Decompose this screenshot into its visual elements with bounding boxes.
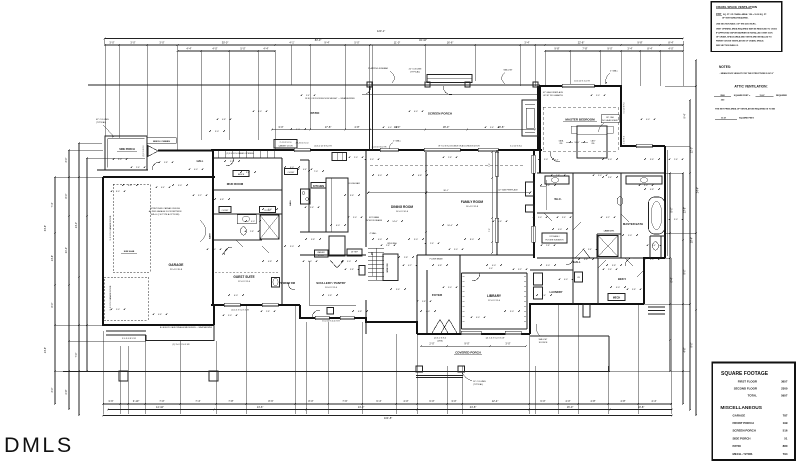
svg-text:6'-0": 6'-0" xyxy=(212,249,216,251)
svg-text:INT. CAB: INT. CAB xyxy=(606,116,614,119)
svg-text:6'-8": 6'-8" xyxy=(438,265,442,267)
svg-text:3'-0": 3'-0" xyxy=(505,341,510,345)
wet shower box xyxy=(260,215,279,239)
svg-text:15'-0 1/2 X 4'-0 X 1R: 15'-0 1/2 X 4'-0 X 1R xyxy=(322,321,340,323)
svg-text:3'-0": 3'-0" xyxy=(448,287,452,289)
svg-text:3'-0 X 8'-0: 3'-0 X 8'-0 xyxy=(624,136,626,144)
patio column c xyxy=(465,82,470,87)
svg-text:MUD ROOM: MUD ROOM xyxy=(227,182,244,186)
dimension rail bottom second xyxy=(108,409,672,411)
svg-text:4'-0": 4'-0" xyxy=(489,268,493,270)
svg-text:4'-4": 4'-4" xyxy=(186,46,191,50)
svg-text:VENT OPENING AREA REQUIRED MAY: VENT OPENING AREA REQUIRED MAY BE REDUCE… xyxy=(716,28,778,31)
svg-text:DMLS: DMLS xyxy=(4,433,74,457)
svg-text:10'-0 X 13'-4: 10'-0 X 13'-4 xyxy=(325,287,338,289)
svg-text:4'-8": 4'-8" xyxy=(650,189,654,191)
library walls xyxy=(461,273,463,329)
svg-text:2'-8": 2'-8" xyxy=(448,157,452,159)
svg-text:2'-2 1/2 X 2'-0: 2'-2 1/2 X 2'-0 xyxy=(280,142,292,144)
wing door diagonals xyxy=(575,250,583,258)
svg-text:4'-8": 4'-8" xyxy=(222,119,226,121)
svg-text:5'-0": 5'-0" xyxy=(628,235,632,237)
wall foyer bottom xyxy=(417,333,530,335)
svg-text:3'-8": 3'-8" xyxy=(350,269,354,271)
dimension rail top overall xyxy=(105,38,684,40)
svg-text:W/A LL Q.W TYPE A OPTIONS): W/A LL Q.W TYPE A OPTIONS) xyxy=(151,213,180,216)
svg-text:7'-6": 7'-6" xyxy=(342,399,347,403)
svg-text:48" REF: 48" REF xyxy=(351,252,359,254)
svg-text:8'-0": 8'-0" xyxy=(378,175,382,177)
family room east wall xyxy=(496,150,498,255)
svg-text:2'-6": 2'-6" xyxy=(674,159,678,161)
svg-text:SIDE PORCH: SIDE PORCH xyxy=(119,148,135,151)
garage stoop steps xyxy=(106,330,146,332)
svg-text:7'-0": 7'-0" xyxy=(314,171,318,173)
svg-text:3'-2": 3'-2" xyxy=(518,269,522,271)
accordion door family top xyxy=(424,148,460,151)
svg-text:HALL: HALL xyxy=(289,199,292,205)
svg-text:4'-0": 4'-0" xyxy=(308,261,312,263)
left rail stub ticks xyxy=(55,176,103,178)
svg-text:11'-0": 11'-0" xyxy=(394,40,400,44)
wic shelves xyxy=(545,180,547,210)
svg-text:W/O HEAD BOARD: W/O HEAD BOARD xyxy=(602,119,619,122)
mech boxed label xyxy=(608,294,625,301)
svg-text:2'-8": 2'-8" xyxy=(546,245,550,247)
window foyer b xyxy=(505,331,521,334)
svg-text:9'-0": 9'-0" xyxy=(607,46,612,50)
svg-text:SCULLERY / PANTRY: SCULLERY / PANTRY xyxy=(316,281,345,285)
svg-text:5'-0": 5'-0" xyxy=(240,46,245,50)
patio door arc a xyxy=(362,86,371,95)
svg-text:12'-0 X 13'-4: 12'-0 X 13'-4 xyxy=(238,281,251,283)
square footage box xyxy=(712,363,795,460)
svg-text:3'-0": 3'-0" xyxy=(674,219,678,221)
wall garage outline xyxy=(103,177,215,325)
svg-text:3'-0": 3'-0" xyxy=(644,185,648,187)
wall right block bottom xyxy=(530,304,644,334)
svg-text:CBL: CBL xyxy=(559,143,563,145)
svg-text:4'-0": 4'-0" xyxy=(403,399,408,403)
window bump b xyxy=(532,226,535,242)
svg-text:CBL: CBL xyxy=(591,143,595,145)
window sitting right xyxy=(636,144,652,147)
broom boxed label xyxy=(359,266,365,276)
stair arrow xyxy=(371,252,373,276)
svg-text:123'-1": 123'-1" xyxy=(377,29,385,33)
svg-text:3'-6": 3'-6" xyxy=(396,289,400,291)
svg-text:DINING ROOM: DINING ROOM xyxy=(391,205,413,209)
master water closet xyxy=(617,197,623,205)
svg-text:3'-0": 3'-0" xyxy=(510,311,514,313)
svg-text:STORAGE /: STORAGE / xyxy=(549,235,560,238)
master vanities xyxy=(545,176,569,184)
door arc guest suite xyxy=(224,247,232,255)
svg-text:4'-0": 4'-0" xyxy=(194,169,198,171)
svg-text:14'-0": 14'-0" xyxy=(358,405,365,409)
svg-text:42" COLUMN: 42" COLUMN xyxy=(96,119,109,121)
svg-text:LINEN CTR.: LINEN CTR. xyxy=(604,231,615,233)
svg-text:OF CRAWL SPACE AREA AND VENTS: OF CRAWL SPACE AREA AND VENTS ARE INSTAL… xyxy=(716,35,772,38)
patio roof line xyxy=(88,84,540,86)
door arc scullery xyxy=(312,310,320,318)
svg-text:4'-0": 4'-0" xyxy=(378,239,382,241)
door arc master xyxy=(550,152,560,162)
svg-text:IF APPROVED VAPOR BARRIER IS I: IF APPROVED VAPOR BARRIER IS INSTALLED O… xyxy=(716,32,773,35)
svg-text:4'-0": 4'-0" xyxy=(558,229,562,231)
svg-text:7'-8": 7'-8" xyxy=(228,399,233,403)
svg-text:10'-0": 10'-0" xyxy=(574,142,580,144)
scullery island xyxy=(327,308,334,315)
svg-text:8'-0": 8'-0" xyxy=(308,399,313,403)
svg-text:4'-0": 4'-0" xyxy=(608,159,612,161)
svg-text:HALL: HALL xyxy=(573,260,581,264)
svg-text:4'-8": 4'-8" xyxy=(268,261,272,263)
svg-text:SQUARE FOOTAGE: SQUARE FOOTAGE xyxy=(721,371,769,377)
svg-text:18'-4": 18'-4" xyxy=(691,237,694,243)
door arc bed5 xyxy=(625,258,633,266)
svg-text:5'-0": 5'-0" xyxy=(268,209,272,211)
svg-text:3'-6": 3'-6" xyxy=(546,185,550,187)
svg-text:6'-0": 6'-0" xyxy=(234,295,238,297)
svg-text:MASTER BATH: MASTER BATH xyxy=(623,222,643,226)
svg-text:4'-0": 4'-0" xyxy=(128,185,132,187)
wall master bedroom xyxy=(540,86,665,173)
svg-text:6'-8": 6'-8" xyxy=(418,175,422,177)
dimension rail right a xyxy=(669,173,671,371)
svg-text:4'-0": 4'-0" xyxy=(564,279,568,281)
svg-text:6'-4": 6'-4" xyxy=(161,187,165,189)
fireplace cabinet xyxy=(526,205,535,212)
svg-text:4'-0": 4'-0" xyxy=(426,311,430,313)
svg-text:7'-0": 7'-0" xyxy=(489,228,491,232)
svg-text:SQ. FT. OF CRAWL AREA / 150 =: SQ. FT. OF CRAWL AREA / 150 = 10.38 SQ. … xyxy=(723,13,767,16)
svg-text:5'-4": 5'-4" xyxy=(306,95,310,97)
svg-text:14'-10": 14'-10" xyxy=(156,405,164,409)
svg-text:2'-8": 2'-8" xyxy=(556,175,560,177)
svg-text:5957: 5957 xyxy=(781,394,788,398)
svg-text:WASHER: WASHER xyxy=(317,251,325,254)
svg-text:5'-0": 5'-0" xyxy=(354,40,359,44)
window dining top xyxy=(380,148,398,151)
svg-text:4'-1": 4'-1" xyxy=(289,40,294,44)
family east interior dim xyxy=(491,152,493,253)
corner pantry diagonal xyxy=(330,260,344,268)
svg-text:4'-0": 4'-0" xyxy=(668,46,673,50)
svg-text:8'-6": 8'-6" xyxy=(268,399,273,403)
svg-text:3'-0": 3'-0" xyxy=(130,40,135,44)
bed master xyxy=(577,126,607,158)
svg-text:4" WALL: 4" WALL xyxy=(369,232,376,235)
wine room box xyxy=(383,254,398,281)
door arc powder xyxy=(288,283,295,290)
svg-text:3'-0": 3'-0" xyxy=(278,125,283,129)
svg-text:10'-8": 10'-8" xyxy=(638,405,645,409)
svg-text:4'-8": 4'-8" xyxy=(590,399,595,403)
svg-text:5'-0": 5'-0" xyxy=(538,217,542,219)
door arc mud xyxy=(226,158,234,166)
partition boxed label xyxy=(274,140,297,149)
svg-text:5'-6": 5'-6" xyxy=(310,207,314,209)
svg-text:4'-2": 4'-2" xyxy=(606,217,610,219)
window scullery a xyxy=(315,316,329,319)
svg-text:7'-4": 7'-4" xyxy=(51,202,54,207)
dimension rail right d xyxy=(695,60,697,416)
porch dim line xyxy=(421,345,526,347)
window bump a xyxy=(532,155,535,173)
svg-text:(2) 3'-0 X 3'-0 X 4R: (2) 3'-0 X 3'-0 X 4R xyxy=(173,344,191,346)
svg-text:3'-0": 3'-0" xyxy=(290,246,294,248)
svg-text:16'-0": 16'-0" xyxy=(567,405,574,409)
svg-text:4'-6": 4'-6" xyxy=(684,347,687,352)
scullery counters xyxy=(308,261,310,305)
wall house left xyxy=(212,150,214,305)
svg-text:3'-0 X 6'-8 X 1R: 3'-0 X 6'-8 X 1R xyxy=(122,338,137,340)
svg-text:6'-0": 6'-0" xyxy=(336,225,340,227)
chimney stub bottom xyxy=(583,304,590,317)
svg-text:5'-0 1/2 X 8'-0: 5'-0 1/2 X 8'-0 xyxy=(624,102,626,113)
svg-text:9'-4": 9'-4" xyxy=(684,113,687,118)
svg-text:TOTAL: TOTAL xyxy=(748,394,758,398)
powder fixtures xyxy=(272,278,280,288)
window foyer a xyxy=(461,331,481,334)
vanity sinks master xyxy=(551,178,559,183)
svg-text:LIBRARY: LIBRARY xyxy=(487,294,502,298)
svg-text:3'-10": 3'-10" xyxy=(133,399,140,403)
dimension rail right c xyxy=(689,100,691,410)
svg-text:FLUSH BAR: FLUSH BAR xyxy=(348,182,360,185)
svg-text:3'-0": 3'-0" xyxy=(118,159,122,161)
svg-text:PATIO: PATIO xyxy=(311,111,320,115)
svg-text:4'-0": 4'-0" xyxy=(251,221,255,223)
wall right wing east xyxy=(664,146,666,258)
svg-text:3'-0": 3'-0" xyxy=(109,40,114,44)
svg-text:5'-4": 5'-4" xyxy=(608,177,612,179)
family interior dim line xyxy=(368,192,530,194)
extension lines to bottom rails xyxy=(102,331,104,414)
svg-text:42" GAS FIREPLACE: 42" GAS FIREPLACE xyxy=(543,91,564,94)
svg-text:MASTER BEDROOM: MASTER BEDROOM xyxy=(565,118,595,122)
svg-text:MECH. / STOR.: MECH. / STOR. xyxy=(733,452,754,456)
svg-text:11.67: 11.67 xyxy=(759,95,765,97)
svg-text:8'-0": 8'-0" xyxy=(470,239,474,241)
screen porch east wall xyxy=(537,86,539,150)
svg-text:4'-0": 4'-0" xyxy=(290,167,294,169)
svg-text:FRONT PORCH: FRONT PORCH xyxy=(733,421,754,425)
dimension rail top sub right xyxy=(545,50,683,52)
window kitchen top xyxy=(294,148,310,151)
garage stoop column a xyxy=(119,371,128,381)
svg-text:(2) 2'-6 X 5'-0 X 3'-W: (2) 2'-6 X 5'-0 X 3'-W xyxy=(486,338,505,340)
svg-text:SUN SLAB: SUN SLAB xyxy=(124,250,135,253)
svg-text:W.I.C.: W.I.C. xyxy=(554,197,562,201)
ref boxed label xyxy=(347,249,362,256)
bed5 walls xyxy=(597,258,599,304)
svg-text:BENCH / CUBBIES: BENCH / CUBBIES xyxy=(153,141,171,143)
svg-text:18 SQ OF ROOFING NOW HEIGHT —: 18 SQ OF ROOFING NOW HEIGHT — WEATHERIZE… xyxy=(305,97,355,100)
ceiling dash dining xyxy=(370,164,525,166)
wc closet walls xyxy=(649,236,651,258)
svg-text:12'-4": 12'-4" xyxy=(492,399,499,403)
svg-text:5'-0": 5'-0" xyxy=(544,159,548,161)
dimension rail right b xyxy=(682,173,684,404)
steps right wing corner xyxy=(648,306,665,308)
bath cluster walls xyxy=(281,158,283,305)
svg-text:36'-1": 36'-1" xyxy=(443,190,449,192)
svg-text:3'-0": 3'-0" xyxy=(454,249,458,251)
svg-text:5'-0": 5'-0" xyxy=(347,261,351,263)
kitchen stove xyxy=(301,189,311,204)
svg-text:WALL MT: WALL MT xyxy=(539,338,549,341)
svg-text:14'-8": 14'-8" xyxy=(44,347,47,353)
svg-text:6'-0": 6'-0" xyxy=(540,399,545,403)
svg-text:FLUSH BEAM: FLUSH BEAM xyxy=(430,258,443,261)
svg-text:16'-4": 16'-4" xyxy=(447,225,453,227)
svg-text:FAMILY ROOM: FAMILY ROOM xyxy=(461,200,483,204)
svg-text:CABINET DOOR: CABINET DOOR xyxy=(278,145,293,148)
svg-text:18'-0": 18'-0" xyxy=(443,125,450,129)
svg-text:GARAGE: GARAGE xyxy=(733,413,746,417)
svg-text:3'-6": 3'-6" xyxy=(108,399,113,403)
outdoor kitchen counter xyxy=(427,75,472,83)
window guest b xyxy=(262,303,278,306)
svg-text:4" WALL: 4" WALL xyxy=(393,140,402,143)
covered porch slab edge xyxy=(416,375,463,377)
svg-text:3'-0": 3'-0" xyxy=(65,157,68,162)
svg-text:14'-0": 14'-0" xyxy=(392,221,398,223)
svg-text:794: 794 xyxy=(783,452,788,456)
fireplace bump out wall xyxy=(533,150,535,258)
svg-text:PATIO: PATIO xyxy=(733,444,742,448)
svg-text:3'-0": 3'-0" xyxy=(414,239,418,241)
svg-text:2'-6": 2'-6" xyxy=(136,167,140,169)
patio column d xyxy=(533,82,538,87)
svg-text:W/ WOOD BEAMS: W/ WOOD BEAMS xyxy=(366,219,383,222)
bath door diagonals xyxy=(222,247,229,255)
patio door arc b xyxy=(443,86,452,95)
bed beam note xyxy=(601,115,619,123)
svg-text:MECH: MECH xyxy=(613,297,621,300)
door arc garage entry xyxy=(152,162,160,170)
svg-text:20'-3 1/2 X 2'-0: 20'-3 1/2 X 2'-0 xyxy=(296,143,309,145)
svg-text:WALL MT: WALL MT xyxy=(503,69,513,72)
svg-text:4'-6": 4'-6" xyxy=(158,314,162,316)
door arc laundry xyxy=(566,258,573,265)
mud set shower box xyxy=(598,236,618,257)
porch fireplace xyxy=(522,100,538,136)
crawl space ventilation box xyxy=(711,2,782,52)
svg-text:9'-8": 9'-8" xyxy=(311,239,315,241)
svg-text:24'-8": 24'-8" xyxy=(470,405,477,409)
front door xyxy=(432,320,448,334)
dimension rail left middle xyxy=(68,150,70,410)
foyer inner wall xyxy=(426,270,428,334)
svg-text:21'-4": 21'-4" xyxy=(65,247,68,253)
wall house top xyxy=(211,149,542,151)
side porch south wall xyxy=(97,169,148,171)
dimension rail bottom first xyxy=(103,403,672,405)
wall master bedroom bottom xyxy=(537,172,665,174)
foyer west wall xyxy=(416,255,418,334)
svg-text:10'-6 1/2 X 1'-0 TR: 10'-6 1/2 X 1'-0 TR xyxy=(574,81,590,83)
garage door dashed lower xyxy=(104,277,148,320)
svg-text:34'-8": 34'-8" xyxy=(44,225,47,231)
window family east b xyxy=(495,218,498,242)
svg-text:9'-0": 9'-0" xyxy=(684,269,687,274)
svg-text:12'-0 X 13'-0: 12'-0 X 13'-0 xyxy=(488,300,501,302)
svg-text:4'-2": 4'-2" xyxy=(408,265,412,267)
svg-text:FIRST FLOOR: FIRST FLOOR xyxy=(738,379,758,383)
svg-text:MISCELLANEOUS: MISCELLANEOUS xyxy=(720,405,762,411)
svg-text:8'-0": 8'-0" xyxy=(116,191,120,193)
svg-text:2'-8": 2'-8" xyxy=(65,389,68,394)
svg-text:2'-6": 2'-6" xyxy=(430,243,434,245)
side entry door xyxy=(148,146,158,157)
svg-text:- MEAN ROOF HEIGHT FOR THE ST: - MEAN ROOF HEIGHT FOR THE STRUCTURE IS … xyxy=(720,72,774,75)
bath toilet xyxy=(241,227,247,235)
svg-text:22'-8": 22'-8" xyxy=(578,40,585,44)
svg-text:4" WALL: 4" WALL xyxy=(610,70,619,73)
svg-text:SCREEN PORCH: SCREEN PORCH xyxy=(428,112,452,116)
window guest a xyxy=(224,303,240,306)
svg-text:4'-6": 4'-6" xyxy=(498,221,502,223)
svg-text:COVERED PORCH: COVERED PORCH xyxy=(455,351,481,355)
svg-text:LAUNDRY: LAUNDRY xyxy=(549,290,562,294)
svg-text:SCREEN PORCH: SCREEN PORCH xyxy=(733,429,756,433)
svg-text:104'-8": 104'-8" xyxy=(384,416,392,420)
svg-text:6'-4": 6'-4" xyxy=(376,399,381,403)
patio bottom right edge xyxy=(608,336,610,371)
svg-text:3'-2": 3'-2" xyxy=(198,195,202,197)
svg-text:4'-0": 4'-0" xyxy=(646,119,650,121)
svg-text:6'-0": 6'-0" xyxy=(414,111,418,113)
svg-text:USE SECTION R408.1 OF THE 2018: USE SECTION R408.1 OF THE 2018 NCRC. xyxy=(716,22,757,25)
svg-text:5'-0": 5'-0" xyxy=(596,95,600,97)
svg-text:2'-6": 2'-6" xyxy=(386,245,390,247)
svg-text:9'-8": 9'-8" xyxy=(637,40,642,44)
svg-text:4'-0": 4'-0" xyxy=(616,287,620,289)
svg-text:BED 5: BED 5 xyxy=(618,277,626,281)
svg-text:2'-8": 2'-8" xyxy=(266,311,270,313)
svg-text:24'-4": 24'-4" xyxy=(697,187,700,193)
svg-text:3'-6": 3'-6" xyxy=(650,159,654,161)
svg-text:9'-0 X 8'-0 GARAGE DOOR: 9'-0 X 8'-0 GARAGE DOOR xyxy=(109,215,112,240)
svg-text:3'-0": 3'-0" xyxy=(598,175,602,177)
patio dim line xyxy=(272,129,535,131)
svg-text:4'-8": 4'-8" xyxy=(620,399,625,403)
svg-text:BATH: BATH xyxy=(209,233,212,239)
master bedroom underline xyxy=(563,121,597,123)
svg-text:GARAGE: GARAGE xyxy=(169,263,185,267)
terrace front line xyxy=(63,371,610,373)
svg-text:42" COLUMN: 42" COLUMN xyxy=(409,69,422,71)
svg-text:AS PER GARAGE DOOR PATTERN: AS PER GARAGE DOOR PATTERN xyxy=(149,210,182,213)
svg-text:7'-4": 7'-4" xyxy=(195,399,200,403)
linen walls xyxy=(597,233,621,235)
room label KITCHEN xyxy=(311,183,326,189)
dimension rail left outer xyxy=(54,177,56,404)
door arc library xyxy=(472,273,480,281)
svg-text:3'-8": 3'-8" xyxy=(632,289,636,291)
svg-text:3'-0": 3'-0" xyxy=(228,315,232,317)
bench box mud xyxy=(233,171,249,177)
master tub xyxy=(649,197,665,234)
laundry walls xyxy=(530,269,573,271)
svg-text:W: 9'-0 X 8'-0 DOUBLE OR ACCOR: W: 9'-0 X 8'-0 DOUBLE OR ACCORDION DOOR xyxy=(438,145,480,148)
svg-text:16'-4 X 19'-8: 16'-4 X 19'-8 xyxy=(466,206,479,208)
svg-text:(DRS): (DRS) xyxy=(437,341,443,343)
svg-text:880: 880 xyxy=(783,444,788,448)
